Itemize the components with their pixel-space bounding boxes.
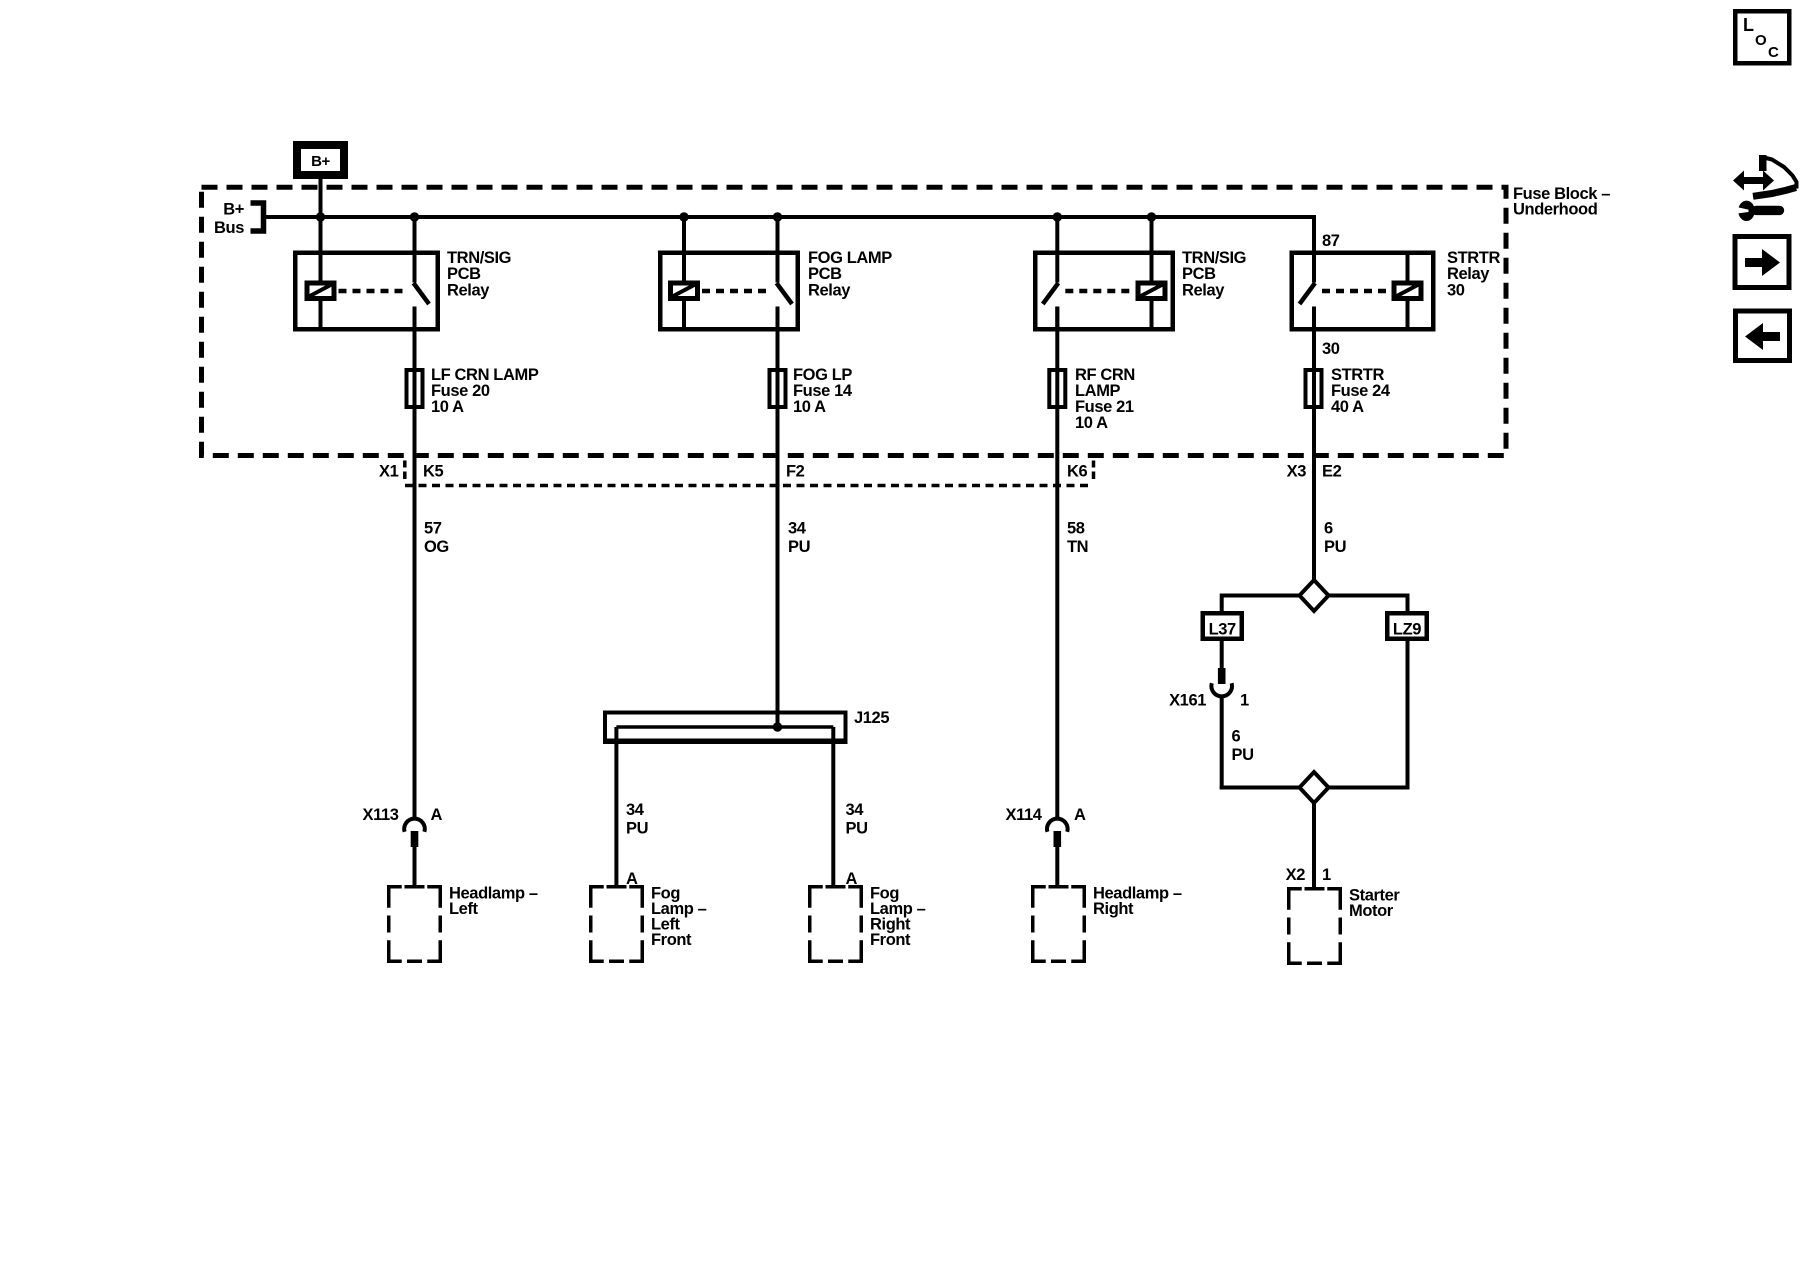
svg-text:PU: PU (846, 820, 868, 838)
svg-text:K6: K6 (1067, 463, 1088, 481)
svg-text:Bus: Bus (214, 219, 244, 237)
svg-text:1: 1 (1240, 692, 1249, 710)
svg-text:PU: PU (626, 820, 648, 838)
svg-text:X2: X2 (1286, 866, 1306, 884)
svg-text:C: C (1768, 44, 1779, 61)
svg-text:J125: J125 (854, 709, 889, 727)
svg-text:X161: X161 (1169, 692, 1206, 710)
svg-text:PU: PU (1324, 538, 1346, 556)
svg-text:Right: Right (1093, 900, 1134, 918)
svg-text:O: O (1755, 32, 1767, 49)
svg-text:X1: X1 (379, 463, 399, 481)
svg-text:A: A (431, 806, 443, 824)
svg-text:B+: B+ (223, 201, 244, 219)
svg-text:6: 6 (1232, 728, 1241, 746)
svg-text:30: 30 (1322, 340, 1340, 358)
svg-text:58: 58 (1067, 520, 1085, 538)
svg-text:34: 34 (846, 801, 865, 819)
svg-text:34: 34 (788, 520, 807, 538)
svg-text:Left: Left (449, 900, 479, 918)
svg-text:57: 57 (424, 520, 442, 538)
svg-text:40 A: 40 A (1331, 398, 1364, 416)
svg-text:Motor: Motor (1349, 902, 1394, 920)
svg-text:PU: PU (788, 538, 810, 556)
svg-text:Relay: Relay (1182, 281, 1225, 299)
svg-text:B+: B+ (311, 153, 330, 170)
svg-text:10 A: 10 A (1075, 414, 1108, 432)
svg-text:L37: L37 (1209, 621, 1236, 639)
svg-text:A: A (1074, 806, 1086, 824)
svg-text:F2: F2 (786, 463, 805, 481)
svg-text:X114: X114 (1005, 806, 1042, 824)
svg-text:L: L (1743, 15, 1754, 35)
svg-text:X113: X113 (362, 806, 398, 824)
svg-text:10 A: 10 A (793, 398, 826, 416)
svg-text:Front: Front (870, 931, 911, 949)
svg-text:Relay: Relay (808, 281, 851, 299)
svg-text:34: 34 (626, 801, 645, 819)
svg-text:TN: TN (1067, 538, 1088, 556)
svg-text:Front: Front (651, 931, 692, 949)
svg-text:Underhood: Underhood (1513, 201, 1597, 219)
svg-text:LZ9: LZ9 (1393, 621, 1421, 639)
svg-text:10 A: 10 A (431, 398, 464, 416)
svg-text:30: 30 (1447, 281, 1465, 299)
svg-text:Relay: Relay (447, 281, 490, 299)
svg-text:PU: PU (1232, 746, 1254, 764)
svg-text:87: 87 (1322, 232, 1340, 250)
svg-text:6: 6 (1324, 520, 1333, 538)
svg-text:X3: X3 (1287, 463, 1307, 481)
svg-text:K5: K5 (423, 463, 444, 481)
svg-text:OG: OG (424, 538, 449, 556)
svg-text:1: 1 (1322, 866, 1331, 884)
svg-text:E2: E2 (1322, 463, 1342, 481)
